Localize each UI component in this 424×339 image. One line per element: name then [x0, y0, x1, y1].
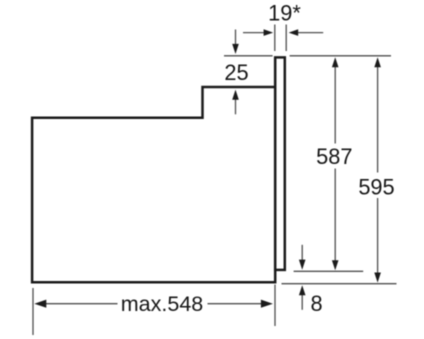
dimension arrow 8 down: [299, 245, 306, 270]
dimension arrow 25 up: [232, 90, 239, 115]
svg-text:25: 25: [224, 60, 248, 85]
dimension arrow 19 left: [243, 29, 273, 36]
svg-text:max.548: max.548: [121, 292, 204, 316]
dimension line 595: [374, 57, 381, 282]
top reference line (left segment): [224, 55, 273, 57]
dimension line 587: [332, 57, 339, 270]
dimension arrow 25 down: [232, 30, 239, 55]
svg-text:587: 587: [316, 144, 352, 169]
extension line bottom right: [274, 285, 276, 327]
svg-text:19*: 19*: [268, 1, 301, 26]
dimension arrow 19 right: [289, 29, 324, 36]
reference line frame bottom: [294, 270, 364, 272]
dimension line max.548: [34, 300, 273, 308]
dimension arrow 8 up: [299, 285, 306, 310]
oven body outline: [32, 57, 275, 282]
extension line 19 left: [274, 25, 276, 52]
extension line bottom left: [32, 288, 34, 335]
top reference line (right segment): [290, 55, 391, 57]
extension line 19 right: [285, 25, 287, 52]
front frame bar: [275, 57, 285, 270]
reference line body bottom: [282, 283, 397, 285]
svg-text:595: 595: [358, 174, 394, 199]
svg-text:8: 8: [310, 291, 322, 316]
